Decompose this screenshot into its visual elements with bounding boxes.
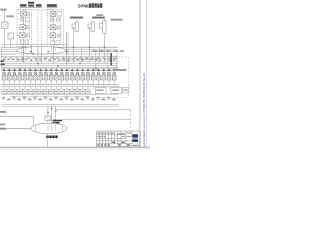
label underlines [20, 7, 58, 9]
feeder from U2 [53, 47, 55, 63]
sheet bottom edge [0, 146, 150, 148]
return line B to tank [56, 119, 131, 121]
label above stack U1 [20, 2, 42, 7]
wire bus line y86 [2, 85, 119, 87]
valve stack U1 dashed enclosure [17, 10, 32, 47]
return wire lower [0, 127, 31, 129]
feeder from U1 [23, 46, 25, 63]
valve V22 [112, 67, 116, 84]
U2 solenoid valve top [50, 11, 56, 16]
U1 bottom box b [25, 40, 29, 44]
svg-text:www.hydraulic-sys.com.cn SYNC: www.hydraulic-sys.com.cn SYNC-HC 2008.06… [142, 73, 146, 150]
title block stamp cell [131, 144, 138, 147]
valve V1 [2, 67, 6, 84]
cylinder C2 [88, 20, 94, 31]
label pump dark [53, 120, 63, 124]
sheet background [0, 0, 150, 150]
valve V9 [44, 67, 48, 84]
suction pipe c [55, 106, 57, 123]
title block table [97, 131, 140, 147]
U2 gauge G8 [57, 34, 61, 38]
U1 bottom box a [20, 40, 24, 44]
wire bus line y58 [20, 57, 118, 59]
riser pipe dashed left [37, 10, 39, 46]
label T2 [0, 124, 5, 126]
dashed wire top right [108, 56, 128, 58]
sheet right border [139, 0, 141, 147]
title text SYNC hydraulic schematic [78, 3, 103, 8]
valve K1 box [2, 22, 8, 28]
wire bus line y56 [2, 56, 119, 58]
valve V11 [55, 67, 59, 84]
valve V20 [102, 67, 106, 84]
title block navy small text [133, 137, 138, 140]
valve V18 [91, 67, 95, 84]
title block gray texts [97, 132, 131, 137]
wire from C2 down [89, 26, 91, 63]
accumulator capsule A1 [17, 47, 66, 54]
U2 small box top right [57, 12, 61, 16]
return wire upper [0, 116, 33, 128]
valve row drop wires [4, 86, 114, 89]
label right cluster mid [113, 69, 127, 71]
wire bus line y47 [2, 46, 119, 48]
wire bus line y105 [2, 104, 119, 106]
valve V2 [7, 67, 11, 84]
U1 center wire [23, 10, 25, 46]
valve reference label boxes row [2, 89, 91, 94]
title block navy cell 2 [132, 139, 138, 142]
dashed riser right [129, 110, 131, 131]
suction pipe b [51, 106, 53, 124]
wire bus line y67 [2, 66, 119, 68]
label above cylinders C2 C3 [92, 17, 105, 19]
U2 center wire [53, 10, 55, 47]
U1 solenoid valve top [21, 11, 27, 16]
U1 gauge G1 [27, 12, 31, 16]
U1 connector stubs [17, 14, 28, 36]
U1 small box [25, 18, 29, 22]
valve V16 [81, 67, 85, 84]
wire bus line y106 [2, 105, 119, 107]
wire bus line y84 [2, 83, 119, 85]
U1 solenoid valve mid [20, 25, 26, 30]
U2 solenoid valve mid [50, 25, 56, 30]
tank internal pipes [48, 124, 56, 131]
extra drop wires [82, 47, 99, 63]
drain wire [47, 134, 49, 147]
return line A to tank [56, 109, 131, 111]
left edge riser wire [0, 47, 2, 69]
U2 valve lower [50, 33, 56, 38]
wire bus line y49 [2, 48, 119, 50]
U2 bottom box b [56, 41, 60, 45]
component box B1 [95, 87, 106, 93]
port label band [3, 59, 116, 62]
label T1 [0, 111, 6, 113]
junction dots [19, 46, 105, 69]
wire below valve K1 [3, 28, 5, 47]
stub wires to boxes [98, 86, 118, 87]
small fittings on pipes [47, 108, 57, 113]
U1 gauge G4 [26, 34, 30, 38]
feeder from risers [37, 46, 39, 65]
tank label dark [46, 136, 58, 139]
dashed wire left of capsule [2, 53, 18, 55]
suction pipe a [47, 106, 49, 124]
label above valve K1 [0, 9, 6, 11]
port label band upper texture [4, 57, 117, 58]
label left of K2 [6, 15, 14, 17]
valve V12 [60, 67, 64, 84]
U1 gauge G2 [20, 18, 24, 22]
valve V8 [39, 67, 43, 84]
component box B2 [111, 87, 122, 93]
U2 gauge G7 [57, 26, 61, 30]
wire bus line y96 [10, 95, 90, 97]
valve V13 [65, 67, 69, 84]
thick pipe P1 [110, 53, 112, 66]
label above stack U2 [47, 4, 57, 7]
pump M2 circle [58, 124, 61, 127]
right cluster labels [93, 50, 125, 52]
label T3 [0, 128, 6, 130]
pump M1 circle [53, 123, 57, 127]
valve V17 [86, 67, 90, 84]
valve V5 [23, 67, 27, 84]
pipe pair from U2 down [66, 32, 68, 65]
riser pipe dashed right [40, 10, 42, 46]
wire from C1 down [73, 26, 75, 63]
valve V10 [49, 67, 53, 84]
wires crossing capsule [24, 47, 54, 54]
label above cylinder C3 [96, 14, 103, 16]
component box B3 [123, 87, 129, 92]
valve V6 [28, 67, 32, 84]
valve V7 [34, 67, 38, 84]
valve V19 [97, 67, 101, 84]
wire from K2 to bus [10, 39, 12, 47]
cylinder C3 [100, 19, 107, 33]
wire bus line y63 [2, 62, 119, 64]
tank T reservoir [31, 123, 67, 133]
wire bus line y69 [2, 68, 119, 70]
port label marks row [2, 97, 116, 101]
valve stack U2 enclosure [47, 10, 64, 48]
U1 gauge G3 [26, 25, 30, 29]
wire bus line y61 [2, 60, 119, 62]
wire from C3 down [103, 33, 105, 63]
valve V4 [18, 67, 22, 84]
cylinder C1 [72, 20, 78, 31]
wire bus line y45 [2, 44, 67, 46]
valve V15 [76, 67, 80, 84]
U2 gauge G6 [56, 18, 60, 22]
wire bus line y65 [2, 64, 119, 66]
U2 bottom box a [51, 41, 55, 45]
title block dark texts [97, 142, 130, 146]
label above cylinder C1 [70, 17, 83, 19]
svg-text:SYNC: SYNC [78, 4, 91, 9]
label right of C3 [111, 19, 123, 21]
valve V21 [107, 67, 111, 84]
valve K2 box [8, 33, 13, 39]
U2 connector stubs [47, 14, 59, 36]
wire down from label to valve K1 [3, 11, 5, 22]
dark marks left of band [0, 60, 4, 65]
U1 inner wire right [28, 14, 30, 40]
tank inner baffle right [62, 125, 64, 133]
U2 gauge G5 [50, 18, 54, 22]
wire bus line y94 [2, 93, 119, 95]
valve V14 [70, 67, 74, 84]
wire bus line y52 [1, 51, 119, 53]
below sheet shading [0, 148, 150, 150]
dashed wire lower right [93, 96, 128, 98]
wire bus line y71 [2, 70, 119, 72]
riser top tie wire [24, 9, 54, 11]
right cluster drop wires [96, 52, 118, 70]
valve V3 [13, 67, 17, 84]
wire bus line y54 [2, 53, 113, 55]
U1 valve lower [20, 33, 26, 38]
page edge line [146, 0, 148, 147]
U2 inner wire right [59, 14, 61, 41]
dashed wire right vertical [127, 57, 129, 97]
tank inner baffle left [34, 125, 36, 133]
title block navy cell 1 [132, 134, 138, 137]
filter F1 box [45, 116, 51, 121]
